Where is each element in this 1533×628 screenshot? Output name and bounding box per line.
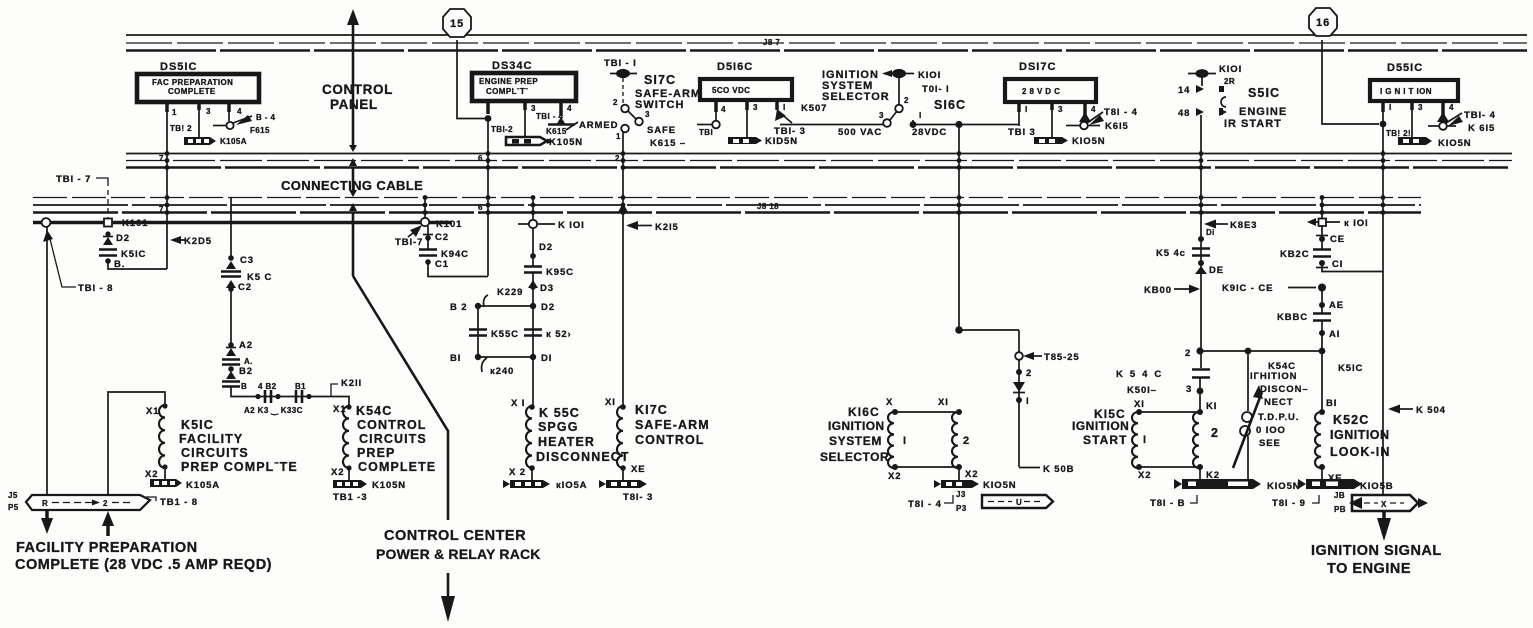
connector K105A under K55C: [503, 480, 587, 491]
svg-text:2R: 2R: [1224, 77, 1235, 86]
node bridge top left: [475, 303, 481, 309]
svg-text:3: 3: [879, 111, 884, 120]
svg-text:ВI: ВI: [1326, 398, 1337, 409]
svg-text:LOOK-IN: LOOK-IN: [1330, 445, 1390, 459]
wire control panel arrow up: [347, 9, 359, 276]
diode C2 right: [1316, 226, 1345, 249]
relay coil K15C right: [1193, 409, 1220, 481]
svg-text:T0I- I: T0I- I: [922, 84, 950, 95]
node TB1-1 dot with wings: [610, 69, 637, 78]
wire stack mid vertical: [230, 289, 232, 345]
lamp DS51C (left) box: [137, 74, 259, 102]
svg-text:K105A: K105A: [186, 480, 220, 491]
lamp DS17C pin 3: [1052, 102, 1063, 137]
svg-text:B: B: [241, 382, 247, 391]
lamp DS51C right pin 1: [1383, 101, 1392, 153]
svg-text:K2D5: K2D5: [184, 236, 212, 247]
lamp DS16C pin 1 with switch arrow: [775, 100, 884, 125]
svg-text:2: 2: [103, 499, 108, 508]
node 16 hex badge: [1309, 8, 1337, 36]
node junction K16C top: [955, 326, 1019, 352]
lamp DS16C box: [700, 79, 792, 100]
svg-text:14: 14: [1178, 85, 1190, 96]
wire K55C stack to coil: [532, 357, 534, 406]
lamp DS17C box: [1005, 79, 1096, 102]
node D2 bridge junction: [530, 302, 555, 313]
svg-text:D2: D2: [116, 233, 130, 244]
svg-text:B - 4: B - 4: [256, 113, 275, 122]
wire top bus line 2: [126, 42, 1527, 44]
svg-text:3: 3: [753, 103, 758, 112]
node circle K101 at x533: [518, 197, 585, 231]
svg-text:KВ2C: KВ2C: [1280, 249, 1309, 260]
svg-text:D55IC: D55IC: [1387, 62, 1423, 74]
svg-text:C3: C3: [240, 255, 254, 266]
label K54C IGNITION DISCONNECT TDPU: [1250, 361, 1309, 449]
svg-text:D2: D2: [539, 242, 553, 253]
svg-text:XI: XI: [938, 397, 949, 408]
svg-text:KID5N: KID5N: [765, 136, 798, 147]
svg-text:TBI-7: TBI-7: [395, 237, 423, 248]
capacitor B contact: [222, 382, 247, 392]
svg-text:K2I5: K2I5: [655, 222, 679, 233]
wire hex15 drop to DS34C pin1: [457, 40, 488, 119]
svg-text:J8 7: J8 7: [763, 38, 780, 47]
wire thick node line left: [33, 221, 452, 225]
label IGNITION SIGNAL TO ENGINE: [1311, 543, 1442, 577]
wire S17C down to K17C: [622, 132, 624, 405]
svg-text:X2: X2: [965, 469, 978, 480]
svg-text:X2: X2: [331, 467, 344, 478]
lamp DS51C pin 4 stub: [229, 102, 242, 121]
capacitor K92C: [1280, 249, 1331, 260]
svg-text:A2 K3 ‿ K33C: A2 K3 ‿ K33C: [244, 406, 303, 416]
connector K105N under K16C: [934, 480, 1017, 491]
relay contact K51C square on node line: [104, 219, 112, 227]
svg-text:T8I - 9: T8I - 9: [1272, 498, 1306, 509]
connector K105A under K51C: [150, 479, 220, 491]
svg-text:500 VAC: 500 VAC: [838, 127, 882, 138]
diode C2 of K94C stack: [423, 226, 449, 250]
svg-text:к240: к240: [490, 366, 514, 377]
label ENGINE IR START: [1224, 106, 1287, 130]
svg-text:S5IC: S5IC: [1248, 86, 1280, 100]
svg-text:KI7C: KI7C: [635, 403, 668, 417]
svg-text:X1: X1: [146, 406, 159, 417]
connector TB1-3 bar under K17C: [599, 480, 653, 503]
node 15 hex badge: [443, 9, 471, 37]
svg-text:I: I: [1143, 434, 1147, 446]
arrow down from J5 pin R: [41, 511, 53, 534]
lamp DS51C pin 3 stub: [199, 102, 211, 137]
label IGNITION SYSTEM SELECTOR: [822, 69, 890, 103]
svg-text:X2: X2: [888, 471, 901, 482]
svg-text:4: 4: [721, 105, 726, 114]
svg-text:K 55C: K 55C: [539, 406, 580, 420]
arrow K2D5: [170, 236, 212, 247]
svg-text:R: R: [42, 499, 48, 508]
wire S16C drop vertical: [958, 125, 960, 331]
svg-text:TB1 -3: TB1 -3: [333, 492, 367, 503]
svg-text:AЕ: AЕ: [1329, 300, 1344, 311]
svg-text:IGNITION SIGNAL: IGNITION SIGNAL: [1311, 543, 1442, 559]
connector K105N under DS16C: [728, 136, 798, 147]
node circle TB5-25: [1015, 352, 1079, 363]
lamp DS34C box: [472, 73, 576, 101]
diode A2: [1319, 287, 1344, 313]
svg-text:K615 –: K615 –: [650, 138, 686, 149]
svg-text:CIRCUITS: CIRCUITS: [359, 432, 427, 446]
node open circle left on thick line: [42, 218, 51, 227]
svg-text:3: 3: [1418, 103, 1423, 112]
contact pair K33C: [295, 382, 312, 403]
svg-text:KВВC: KВВC: [1277, 312, 1308, 323]
svg-text:IГНITION: IГНITION: [1250, 371, 1297, 382]
relay coil K15C left: [1132, 399, 1200, 481]
svg-text:J3: J3: [956, 490, 966, 499]
svg-text:KIOI: KIOI: [918, 70, 941, 81]
stub K211: [331, 378, 362, 396]
wire bridge top: [478, 305, 533, 307]
svg-text:X 2: X 2: [509, 467, 526, 478]
wire relay rack bus y351: [1185, 347, 1325, 359]
svg-text:3: 3: [645, 110, 650, 119]
switch selector contact 3: [879, 111, 891, 127]
svg-text:CONTROL: CONTROL: [357, 418, 427, 432]
svg-text:CONTROL: CONTROL: [635, 433, 705, 447]
wire S51C down long vertical: [1200, 115, 1202, 351]
svg-text:FACILITY PREPARATION: FACILITY PREPARATION: [16, 540, 198, 556]
relay coil K17C: [605, 397, 645, 480]
svg-text:START: START: [1083, 433, 1128, 447]
svg-text:K101: K101: [436, 219, 462, 230]
wire control center arrow down: [441, 573, 455, 622]
svg-text:K105A: K105A: [220, 137, 247, 146]
svg-text:KIOI: KIOI: [1219, 64, 1242, 75]
svg-text:DISCONNECT: DISCONNECT: [536, 450, 630, 464]
svg-text:K2II: K2II: [341, 378, 362, 389]
svg-text:COMPLETE: COMPLETE: [168, 87, 216, 96]
svg-text:ENGINE PREP: ENGINE PREP: [479, 77, 538, 86]
lamp DS51C right pin 3: [1412, 101, 1423, 137]
svg-text:4: 4: [567, 104, 572, 113]
wire top bus line 3: [126, 49, 1527, 52]
svg-text:SPGG: SPGG: [538, 420, 579, 434]
svg-text:K229: K229: [497, 287, 523, 298]
svg-text:SELECTOR: SELECTOR: [820, 450, 889, 464]
svg-text:CIRCUITS: CIRCUITS: [181, 446, 249, 460]
label CONTROL CENTER POWER & RELAY RACK: [376, 528, 541, 562]
switch S51C contact 14: [1178, 85, 1224, 96]
svg-text:2: 2: [1026, 368, 1032, 379]
svg-text:Di: Di: [1206, 228, 1215, 237]
diode C2: [226, 280, 252, 293]
svg-text:DЕ: DЕ: [1209, 265, 1224, 276]
wire bridge right leg: [532, 306, 534, 357]
svg-text:28VDC: 28VDC: [912, 127, 947, 138]
svg-text:ENGINE: ENGINE: [1239, 106, 1287, 118]
svg-text:K615: K615: [546, 127, 567, 136]
diode C1 right: [1316, 259, 1343, 270]
lamp DS51C right box: [1370, 80, 1458, 101]
svg-text:1: 1: [616, 132, 621, 141]
switch selector blade: [890, 111, 897, 120]
arrow up into J5 pin 2: [102, 511, 114, 536]
label TB1-7 second with arrow: [395, 225, 423, 248]
svg-text:4: 4: [237, 107, 242, 116]
svg-text:SAFE: SAFE: [647, 125, 676, 136]
svg-text:JВ: JВ: [1334, 491, 1345, 500]
svg-text:2: 2: [1185, 348, 1191, 359]
svg-text:J5: J5: [8, 491, 18, 500]
diode D2 K55C stack: [530, 228, 553, 266]
svg-text:BI: BI: [450, 353, 461, 364]
node junction S16C drop: [955, 121, 962, 128]
svg-text:TO ENGINE: TO ENGINE: [1327, 561, 1411, 577]
arrow K504: [1388, 405, 1446, 417]
svg-text:KI6C: KI6C: [848, 405, 880, 419]
svg-text:16: 16: [1316, 17, 1330, 29]
lamp DS17C pin 4: [1066, 102, 1104, 129]
capacitor A contact: [222, 357, 253, 366]
svg-text:K52C: K52C: [1333, 413, 1369, 427]
svg-text:6: 6: [478, 203, 483, 212]
svg-text:D2: D2: [541, 302, 555, 313]
lamp DS17C pin 1: [1019, 102, 1028, 126]
svg-text:IGNITION: IGNITION: [828, 419, 885, 433]
svg-text:T.D.P.U.: T.D.P.U.: [1258, 412, 1299, 423]
label TB1-7 left: [56, 174, 108, 218]
capacitor K55C contact: [469, 329, 519, 340]
wire control-center bus 3 line 3: [33, 211, 1421, 214]
label K51C FACILITY CIRCUITS PREP COMPLETE: [179, 418, 298, 474]
diode A1: [1319, 321, 1340, 351]
label TB1-4 K16C: [908, 490, 967, 513]
switch selector contact 2: [895, 96, 909, 112]
lamp DS34C pin 1: [485, 101, 492, 276]
svg-text:COMPLETE (28 VDC .5 AMP REQD): COMPLETE (28 VDC .5 AMP REQD): [15, 557, 272, 573]
svg-text:FACILITY: FACILITY: [179, 432, 243, 446]
svg-text:K 50В: K 50В: [1043, 464, 1074, 475]
wire connecting-cable bus 2 line 3: [126, 166, 1512, 169]
switch S17C blade to safe: [628, 110, 650, 125]
svg-text:K105N: K105N: [549, 137, 583, 148]
svg-text:PВ: PВ: [1334, 505, 1346, 514]
svg-text:2: 2: [904, 96, 909, 105]
svg-text:TBI - 4: TBI - 4: [536, 112, 563, 121]
svg-text:TBI- 3: TBI- 3: [774, 126, 806, 137]
lamp DS51C right pin 4: [1428, 101, 1463, 130]
svg-text:P5: P5: [8, 503, 19, 512]
switch S17C contact 2: [613, 98, 629, 112]
label K15C IGNITION START: [1072, 407, 1129, 447]
relay coil K51C: [145, 403, 168, 480]
arrow head at bus crossing x623: [618, 203, 628, 212]
svg-text:J8 18: J8 18: [757, 202, 779, 211]
svg-text:FAC PREPARATION: FAC PREPARATION: [152, 78, 233, 87]
svg-text:F615: F615: [250, 126, 270, 135]
svg-text:P3: P3: [956, 504, 967, 513]
svg-text:DISCON–: DISCON–: [1260, 384, 1309, 395]
label TB1-8 right: [1150, 495, 1197, 509]
node K101 at S51C: [1188, 64, 1242, 86]
connector K105A under DS51C: [184, 137, 247, 146]
svg-text:TBI - I: TBI - I: [604, 58, 637, 69]
lamp DS34C pin 4: [548, 101, 578, 130]
label K91C-C2: [1222, 283, 1326, 294]
svg-text:KIO5N: KIO5N: [1267, 481, 1301, 492]
diode D3: [528, 273, 554, 306]
svg-text:KIO5N: KIO5N: [983, 480, 1017, 491]
svg-text:2: 2: [963, 435, 970, 447]
svg-text:COMPLˉTˉ: COMPLˉTˉ: [486, 87, 528, 96]
wire S16C to DS17C pin1: [913, 124, 1019, 126]
wire control-center bus 3 line 1: [33, 197, 1421, 199]
svg-text:T8I - 4: T8I - 4: [1104, 107, 1138, 118]
diode A2: [226, 340, 253, 356]
label K229 with hook: [484, 287, 524, 307]
svg-text:K IOI: K IOI: [558, 220, 585, 231]
svg-text:TBI - 8: TBI - 8: [78, 283, 113, 294]
svg-text:CONTROL: CONTROL: [322, 82, 393, 97]
node bus crossing dots: [165, 151, 1386, 215]
connector J5/P5 bar: [8, 491, 150, 512]
relay coil K54C: [331, 404, 352, 480]
capacitor K52 contact: [524, 329, 572, 340]
wire elbow C1 to pin1 vertical: [1322, 263, 1383, 272]
svg-text:к IOI: к IOI: [1344, 218, 1369, 229]
svg-text:2: 2: [613, 98, 618, 107]
svg-text:1: 1: [172, 108, 177, 117]
connector K105N under K54C: [333, 480, 406, 491]
svg-text:X2: X2: [1138, 470, 1151, 481]
svg-text:HEATER: HEATER: [538, 435, 595, 449]
connector K105N under DS17C: [1034, 136, 1106, 147]
svg-text:TB! 2: TB! 2: [170, 124, 192, 133]
capacitor K54C lower: [1116, 351, 1210, 412]
svg-text:CONTROL CENTER: CONTROL CENTER: [384, 528, 526, 544]
wire K508: [1019, 464, 1074, 475]
label TB1-9: [1272, 495, 1319, 509]
svg-text:COMPLETE: COMPLETE: [358, 460, 436, 474]
svg-text:K6I5: K6I5: [1105, 121, 1129, 132]
capacitor K95C: [524, 267, 574, 279]
timer TDPU column: [1233, 351, 1263, 480]
svg-text:C2: C2: [435, 232, 449, 243]
svg-text:K54C: K54C: [1116, 369, 1168, 380]
svg-text:K5 4с: K5 4с: [1156, 248, 1186, 259]
svg-text:A.: A.: [244, 357, 253, 366]
diode D2 right stack: [1195, 260, 1224, 276]
lamp DS51C pin 1 stub: [167, 102, 177, 117]
arrow ignition signal down: [1377, 511, 1391, 541]
svg-text:K5IC: K5IC: [181, 418, 214, 432]
svg-text:K101: K101: [122, 218, 148, 229]
svg-text:2: 2: [1211, 426, 1219, 440]
wire connecting-cable bus 2 line 2: [126, 160, 1512, 162]
svg-text:NECT: NECT: [1264, 397, 1293, 408]
svg-text:B 2: B 2: [450, 302, 467, 313]
svg-text:DI: DI: [541, 353, 552, 364]
lamp DS34C pin 3: [525, 101, 536, 137]
node K101 ignition selector: [882, 69, 941, 81]
svg-text:5CO VDC: 5CO VDC: [712, 86, 750, 95]
relay coil K55C: [509, 398, 535, 480]
svg-text:K5IC: K5IC: [1338, 363, 1363, 374]
wire left vertical to J5: [46, 227, 48, 495]
svg-text:I: I: [783, 103, 786, 112]
svg-text:T85-25: T85-25: [1044, 352, 1080, 363]
svg-text:IR START: IR START: [1224, 118, 1282, 130]
wire connecting-cable bus 2 line 1: [126, 153, 1512, 155]
diode stack TB5-25 leg: [1013, 360, 1032, 467]
label TB1-8 right of J5 bar: [146, 497, 198, 508]
svg-text:DS5IC: DS5IC: [160, 61, 197, 73]
svg-text:3: 3: [206, 107, 211, 116]
connector J6/P6 bar: [1334, 491, 1428, 514]
wire K51C stack loop to vertical: [108, 261, 167, 269]
label K240 with hook: [482, 358, 515, 377]
svg-text:TBI: TBI: [699, 128, 713, 137]
svg-text:DS34C: DS34C: [492, 60, 532, 72]
svg-text:IGNITION: IGNITION: [1330, 428, 1390, 442]
wire DS51C right pin1 long vertical: [1382, 150, 1384, 495]
svg-text:AI: AI: [1329, 329, 1340, 340]
svg-text:7: 7: [159, 205, 164, 214]
svg-text:KIO5В: KIO5В: [1360, 481, 1394, 492]
svg-text:SI6C: SI6C: [934, 98, 966, 112]
diode D2 in K51C stack: [103, 231, 130, 245]
label TB1-8 with leader arrow: [43, 230, 113, 294]
wire contact row: [231, 386, 349, 406]
diode C3: [226, 255, 254, 269]
connector K105N under DS34C: [506, 137, 583, 148]
svg-text:U: U: [1016, 498, 1022, 507]
wire top bus line 1: [126, 34, 1527, 36]
svg-text:K9IC - CЕ: K9IC - CЕ: [1222, 283, 1273, 294]
svg-text:TBI 3: TBI 3: [1008, 127, 1036, 138]
svg-text:PREP COMPLˉTE: PREP COMPLˉTE: [181, 460, 298, 474]
svg-text:KВ00: KВ00: [1144, 285, 1172, 296]
svg-text:ХI: ХI: [1134, 399, 1145, 410]
svg-text:B2: B2: [239, 366, 253, 377]
svg-text:I: I: [1026, 396, 1030, 407]
svg-text:B1: B1: [295, 382, 306, 391]
wire bridge bottom: [450, 353, 552, 364]
svg-text:SELECTOR: SELECTOR: [822, 91, 890, 103]
svg-text:X I: X I: [511, 398, 525, 409]
node square K101 right: [1307, 218, 1369, 229]
relay coil K16C left: [886, 397, 959, 482]
svg-text:IGNITION: IGNITION: [1072, 419, 1129, 433]
switch S51C bracket: [1221, 97, 1226, 107]
svg-text:4 B2: 4 B2: [258, 382, 277, 391]
svg-text:K8Е3: K8Е3: [1230, 220, 1257, 231]
svg-text:A2: A2: [239, 340, 253, 351]
svg-text:2 8 V D C: 2 8 V D C: [1022, 87, 1060, 96]
svg-text:Х: Х: [886, 397, 893, 408]
switch contact at DS51C pin 4: [213, 115, 252, 129]
svg-text:I: I: [1025, 105, 1028, 114]
label K52C IGNITION LOCK-IN: [1330, 413, 1390, 459]
wire control center slant line: [353, 276, 448, 520]
svg-text:4: 4: [1449, 103, 1454, 112]
capacitor K94C: [419, 249, 469, 260]
svg-text:SЕЕ: SЕЕ: [1259, 438, 1281, 449]
svg-text:T8I - В: T8I - В: [1150, 498, 1185, 509]
switch S16C contact 1: [910, 111, 922, 128]
connector bar under K52C: [1298, 479, 1394, 492]
